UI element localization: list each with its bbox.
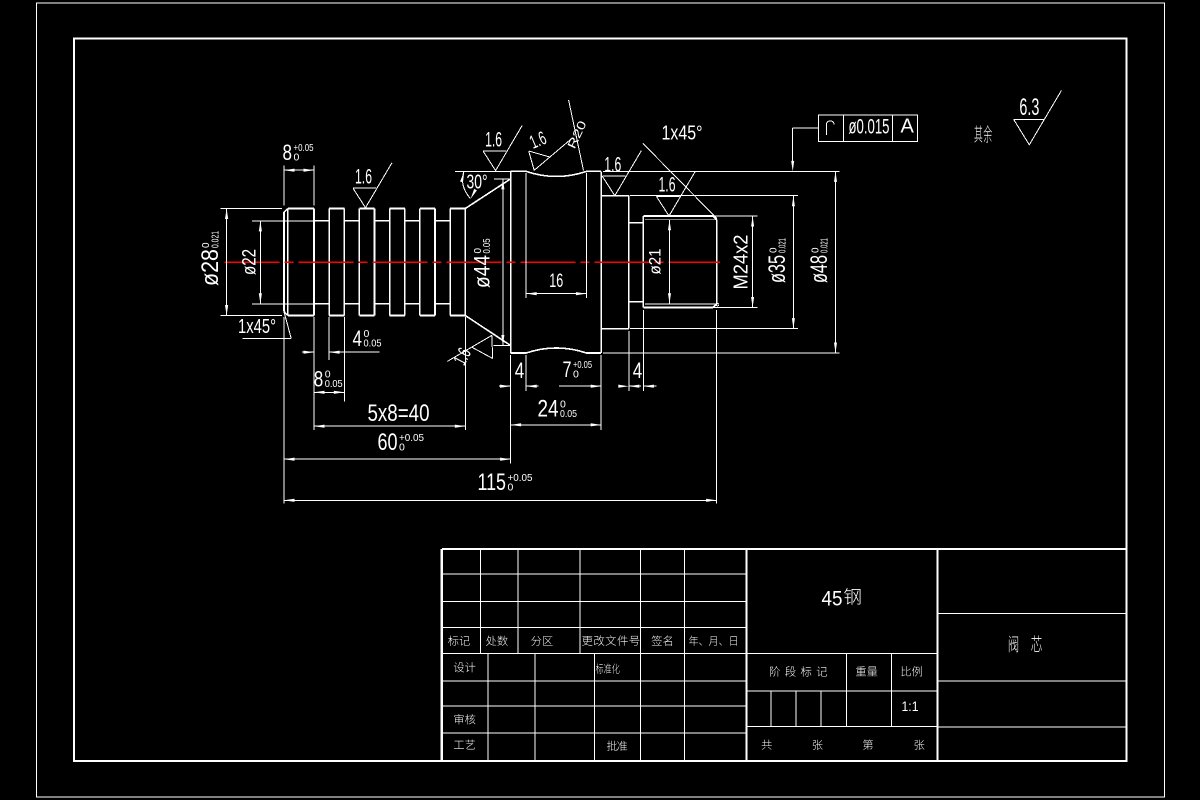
qiyu other surfaces 6.3 symbol [974, 125, 982, 142]
dim dia28 0/-0.021 [226, 209, 228, 316]
svg-text:ø28: ø28 [197, 249, 224, 286]
svg-text:1.6: 1.6 [485, 128, 502, 151]
svg-text:5x8=40: 5x8=40 [368, 400, 430, 427]
svg-text:0: 0 [573, 369, 579, 381]
svg-text:0.021: 0.021 [778, 238, 789, 253]
svg-text:0.021: 0.021 [820, 238, 831, 253]
dim 24 0/-0.05 [511, 424, 602, 426]
dim 4 undercut width [618, 385, 629, 388]
title block left section columns upper [480, 549, 482, 653]
title block middle rows [747, 690, 938, 692]
dim dia35 0/-0.021 [792, 196, 794, 329]
svg-text:0: 0 [294, 152, 300, 164]
part: undercut/thread face [642, 216, 644, 308]
dim dia48 0/-0.021 [835, 171, 837, 353]
dim 8+0.05 extension lines [283, 166, 285, 206]
dim 60 +0.05 0 [284, 458, 511, 460]
svg-text:1:1: 1:1 [902, 699, 919, 714]
dim 115 +0.05 0 [284, 499, 717, 501]
dim dia21 thread root [669, 220, 671, 304]
svg-text:4: 4 [515, 358, 525, 383]
tolerance frame leader [793, 127, 819, 129]
svg-text:0.021: 0.021 [211, 231, 222, 248]
svg-text:0.05: 0.05 [325, 378, 343, 390]
dim 5x8=40 [314, 425, 465, 427]
extension lines bottom left [283, 317, 285, 504]
title block part name fa xin [1009, 636, 1018, 653]
part: step face at dia48/dia35 [600, 171, 602, 353]
title block sheji label [454, 662, 464, 672]
surface roughness 1.6 on dia35 [602, 151, 641, 196]
title block left section rows [442, 573, 747, 575]
part: dia35 section edges [601, 195, 629, 197]
title block gong zhang di zhang labels [762, 740, 772, 750]
part: dia48 section with R20 groove bottom [511, 348, 602, 353]
title block standardization label [596, 663, 603, 673]
svg-text:ø44: ø44 [470, 255, 495, 288]
title block gongyi label [454, 741, 464, 749]
part: thread undercut groove edges [629, 222, 644, 224]
R20 leader and label [569, 100, 584, 171]
title block section dividers [746, 549, 748, 761]
svg-text:0.05: 0.05 [364, 337, 382, 349]
dim 4 -0.05 groove width [302, 351, 314, 353]
svg-text:ø48: ø48 [806, 255, 833, 283]
svg-text:1.6: 1.6 [659, 174, 676, 197]
svg-text:4: 4 [353, 326, 363, 351]
title block shenhe label [454, 714, 463, 724]
svg-text:7: 7 [563, 357, 572, 382]
surface roughness 1.6 on cone extension [483, 126, 522, 171]
title block left section columns lower [487, 653, 489, 761]
dim 8+0.05 [284, 169, 314, 171]
red center line [225, 261, 720, 263]
part: left end face with 1x45 chamfer [284, 209, 288, 316]
svg-text:ø0.015: ø0.015 [849, 114, 890, 138]
title block year month day label [689, 636, 698, 646]
part: right end face with chamfers [713, 216, 717, 308]
dim dia35 extension lines [630, 195, 798, 197]
surface roughness 1.6 tilted on groove arc top [529, 138, 572, 170]
dim 16 extension lines inside part [525, 173, 527, 298]
dim dia22 [259, 221, 261, 304]
svg-text:8: 8 [314, 366, 324, 391]
svg-text:30°: 30° [467, 172, 488, 194]
svg-text:1.6: 1.6 [355, 165, 372, 188]
part: dia48 section with R20 groove top [511, 171, 602, 176]
svg-text:ø35: ø35 [764, 255, 791, 283]
title block header labels row [448, 636, 458, 646]
geometric tolerance frame circular runout 0.015 A [819, 115, 918, 141]
part: groove dia22 edges and rib dia28 edges [314, 220, 329, 222]
svg-text:A: A [901, 116, 915, 138]
part: dia28 cylinder 8mm top and bottom edges [288, 208, 314, 210]
dim dia44 extension lines [494, 178, 510, 180]
inner drawing frame [74, 39, 1127, 762]
surface roughness 1.6 tilted on R20 groove [447, 335, 492, 361]
dim 4 left band of dia48 [499, 385, 511, 387]
svg-text:16: 16 [549, 271, 563, 292]
part: 30 degree cone [465, 179, 510, 209]
svg-text:0: 0 [399, 442, 405, 454]
title block pizhun label [607, 741, 617, 751]
dim 16 [526, 293, 586, 295]
dim dia48 extension lines [603, 170, 840, 172]
svg-text:1x45°: 1x45° [662, 123, 703, 145]
dim dia22 extension lines [252, 220, 313, 222]
title block stage mark weight scale labels [770, 666, 780, 677]
title block outer line [442, 549, 1127, 761]
part: thread root lines dia21 [645, 219, 718, 221]
svg-text:24: 24 [538, 395, 559, 422]
part: cone end face dia48 [510, 171, 512, 353]
svg-text:6.3: 6.3 [1019, 94, 1039, 121]
dim 7 +0.05 [559, 385, 601, 387]
dim M24x2 extension lines [713, 215, 758, 217]
svg-text:4: 4 [633, 358, 643, 383]
svg-text:0: 0 [508, 481, 514, 493]
surface roughness 1.6 on M24 thread [657, 171, 696, 216]
svg-text:ø22: ø22 [240, 249, 261, 275]
dim dia44 0/-0.05 [502, 179, 504, 346]
svg-text:M24x2: M24x2 [730, 235, 753, 290]
dim 8 -0.05 groove pitch [314, 391, 344, 393]
svg-text:0.05: 0.05 [560, 408, 577, 420]
svg-text:60: 60 [378, 429, 398, 456]
svg-text:0.05: 0.05 [482, 238, 493, 253]
part: step face dia35/undercut [628, 196, 630, 329]
dim M24x2 [752, 216, 754, 308]
svg-text:ø21: ø21 [646, 249, 665, 275]
title block middle columns [845, 653, 847, 726]
part: groove section faces (5x8=40) [313, 209, 315, 316]
svg-text:8: 8 [283, 140, 293, 165]
svg-text:115: 115 [478, 469, 507, 496]
svg-text:1.6: 1.6 [604, 153, 621, 176]
svg-text:1x45°: 1x45° [238, 316, 276, 338]
extension line at dia48 top level left of cone end [455, 170, 511, 172]
dim dia28 extension lines [221, 208, 283, 210]
part: M24 thread outer edges [643, 215, 713, 217]
svg-text:45: 45 [822, 588, 843, 611]
title block right column rows [938, 612, 1127, 614]
surface roughness 1.6 on rib [353, 163, 392, 208]
